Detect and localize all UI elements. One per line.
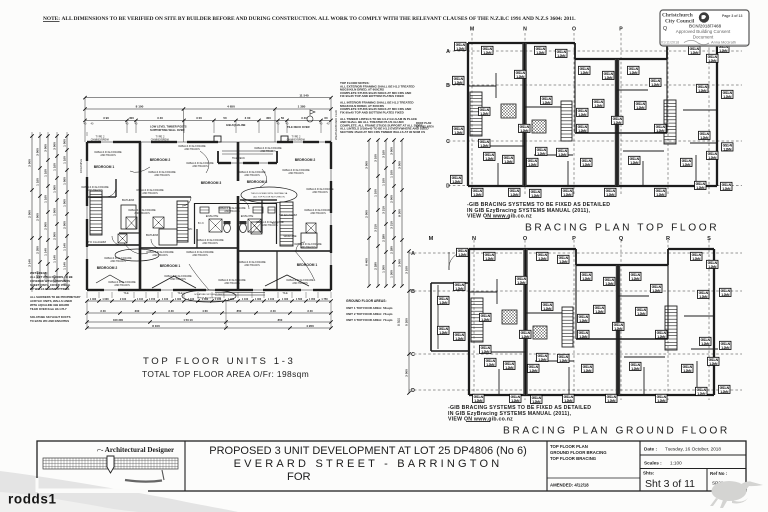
svg-text:Ref No :: Ref No : xyxy=(710,471,728,476)
svg-text:BEDROOM 3: BEDROOM 3 xyxy=(247,180,268,184)
svg-text:AND TRACKS: AND TRACKS xyxy=(224,282,240,285)
svg-text:A: A xyxy=(411,251,415,257)
svg-text:3 40: 3 40 xyxy=(168,309,174,313)
svg-text:850: 850 xyxy=(278,318,283,322)
svg-text:WEATHERBOARD CLAD: WEATHERBOARD CLAD xyxy=(334,110,338,140)
svg-text:1 100: 1 100 xyxy=(162,298,169,301)
svg-text:O: O xyxy=(523,236,528,242)
svg-text:4 260: 4 260 xyxy=(306,324,314,328)
svg-text:BEDROOM 1: BEDROOM 1 xyxy=(160,264,181,268)
svg-text:TO CA AGRM: TO CA AGRM xyxy=(88,240,107,244)
svg-text:TYPE 2: TYPE 2 xyxy=(96,135,105,139)
svg-text:3 000: 3 000 xyxy=(44,144,48,152)
svg-text:EVERARD STREET - BARRINGTON: EVERARD STREET - BARRINGTON xyxy=(234,458,503,470)
svg-text:3 160: 3 160 xyxy=(382,150,386,158)
svg-text:N: N xyxy=(523,27,527,33)
svg-text:GROUND FLOOR AREAS:: GROUND FLOOR AREAS: xyxy=(346,299,387,303)
svg-text:GROUND FLOOR BRACING: GROUND FLOOR BRACING xyxy=(550,450,607,455)
svg-text:BEDROOM 2: BEDROOM 2 xyxy=(97,266,118,270)
svg-text:SUPPORTING WALL OVER: SUPPORTING WALL OVER xyxy=(150,128,185,132)
svg-text:2 000: 2 000 xyxy=(390,195,394,203)
svg-text:ALL DIMENSIONS TO BE VERIFIED: ALL DIMENSIONS TO BE VERIFIED ON SITE BY… xyxy=(62,16,577,22)
svg-text:B: B xyxy=(446,83,450,89)
svg-text:1 060: 1 060 xyxy=(53,185,57,193)
svg-text:1 140: 1 140 xyxy=(63,243,67,251)
svg-text:O: O xyxy=(572,27,576,33)
svg-text:1 140: 1 140 xyxy=(44,248,48,256)
svg-text:AND TRACKS: AND TRACKS xyxy=(312,191,328,194)
svg-text:8 300: 8 300 xyxy=(397,318,401,326)
svg-text:BEDROOM 2: BEDROOM 2 xyxy=(150,158,171,162)
svg-text:5 200: 5 200 xyxy=(405,318,409,326)
svg-text:AND TRACKS: AND TRACKS xyxy=(292,282,308,285)
svg-text:1 000: 1 000 xyxy=(102,298,109,301)
svg-text:3 310: 3 310 xyxy=(390,221,394,229)
svg-text:2 280: 2 280 xyxy=(374,262,378,270)
svg-text:3 00: 3 00 xyxy=(245,116,251,120)
svg-text:3 000: 3 000 xyxy=(36,148,40,156)
svg-text:AND TRACKS: AND TRACKS xyxy=(170,278,186,281)
svg-text:1 400: 1 400 xyxy=(255,298,262,301)
svg-text:2 000: 2 000 xyxy=(53,232,57,240)
svg-text:AND TRACKS: AND TRACKS xyxy=(202,242,218,245)
svg-text:N: N xyxy=(472,236,476,242)
svg-text:AND TRACKS: AND TRACKS xyxy=(262,224,278,227)
svg-text:Shts:: Shts: xyxy=(643,471,655,476)
svg-text:CHIMNEYBREAK: CHIMNEYBREAK xyxy=(287,139,306,142)
svg-text:UNIT 2 TOP FOOR AREA: 74sqm: UNIT 2 TOP FOOR AREA: 74sqm xyxy=(346,312,393,316)
svg-text:ALL TOP FLOOR NOTCHED IN: ALL TOP FLOOR NOTCHED IN xyxy=(253,195,285,198)
svg-text:AND TRACKS: AND TRACKS xyxy=(288,172,304,175)
svg-text:A: A xyxy=(446,49,450,55)
svg-text:AND TRACKS: AND TRACKS xyxy=(244,264,260,267)
svg-text:1 300: 1 300 xyxy=(382,265,386,273)
svg-text:60: 60 xyxy=(324,116,328,120)
svg-text:2 280: 2 280 xyxy=(390,246,394,254)
svg-text:1 140: 1 140 xyxy=(63,262,67,270)
svg-text:AND TRACKS: AND TRACKS xyxy=(192,165,208,168)
svg-text:4 60: 4 60 xyxy=(202,309,208,313)
svg-text:D: D xyxy=(411,388,415,394)
svg-text:1 750: 1 750 xyxy=(321,298,328,301)
svg-text:3 000: 3 000 xyxy=(398,259,402,267)
svg-text:TILE: TILE xyxy=(282,292,288,295)
svg-text:Q: Q xyxy=(619,236,624,242)
svg-text:⌐- Architectural Designer: ⌐- Architectural Designer xyxy=(97,446,174,454)
svg-text:AMENDED: 4/12/18: AMENDED: 4/12/18 xyxy=(550,483,589,488)
svg-text:2 000: 2 000 xyxy=(44,222,48,230)
svg-text:1 060: 1 060 xyxy=(63,177,67,185)
svg-text:1 110: 1 110 xyxy=(137,298,144,301)
svg-text:1 100: 1 100 xyxy=(382,178,386,186)
svg-text:AND TRACKS: AND TRACKS xyxy=(154,174,170,177)
svg-text:1 140: 1 140 xyxy=(53,255,57,263)
svg-text:3 40: 3 40 xyxy=(270,309,276,313)
svg-text:3 90: 3 90 xyxy=(103,116,109,120)
svg-text:SOLATUBE SKYLIGHT DUCT: SOLATUBE SKYLIGHT DUCT xyxy=(194,293,224,296)
svg-text:Date :: Date : xyxy=(644,447,657,452)
svg-text:AND TRACKS: AND TRACKS xyxy=(87,189,103,192)
svg-text:300: 300 xyxy=(135,309,140,313)
svg-text:6 400: 6 400 xyxy=(365,258,369,266)
svg-text:3 40: 3 40 xyxy=(100,309,106,313)
svg-text:SECTION 45x90 AT 600 CRS TIMBE: SECTION 45x90 AT 600 CRS TIMBER WALLS AT… xyxy=(340,130,425,134)
svg-text:M: M xyxy=(429,236,434,242)
svg-text:WDROBE: WDROBE xyxy=(283,234,296,238)
svg-text:B: B xyxy=(411,289,415,295)
svg-text:LOW LEVEL TIMBER POSTS: LOW LEVEL TIMBER POSTS xyxy=(150,125,187,129)
svg-text:UNIT 1 TOP FOOR AREA: 53sqm: UNIT 1 TOP FOOR AREA: 53sqm xyxy=(346,306,393,310)
svg-text:CHIMNEYBREAK: CHIMNEYBREAK xyxy=(91,139,110,142)
svg-text:3 000: 3 000 xyxy=(53,142,57,150)
svg-text:1 000: 1 000 xyxy=(53,208,57,216)
svg-text:1/FRAMING: 1/FRAMING xyxy=(79,159,83,173)
svg-text:AND TRACKS: AND TRACKS xyxy=(300,246,316,249)
svg-text:1 100: 1 100 xyxy=(215,298,222,301)
svg-text:BEDROOM 2: BEDROOM 2 xyxy=(295,158,316,162)
svg-text:3 00: 3 00 xyxy=(196,116,202,120)
svg-text:THIS FLOORED WITH CENTRAL VA: THIS FLOORED WITH CENTRAL VA xyxy=(251,192,288,195)
svg-text:3 310: 3 310 xyxy=(382,206,386,214)
svg-text:TILE: TILE xyxy=(123,292,129,295)
svg-text:1 100: 1 100 xyxy=(188,298,195,301)
svg-text:8 300: 8 300 xyxy=(398,209,402,217)
svg-text:300: 300 xyxy=(266,116,271,120)
svg-text:BATHRM: BATHRM xyxy=(122,198,135,202)
svg-text:1 500: 1 500 xyxy=(296,298,303,301)
svg-text:AT THIS AREA: AT THIS AREA xyxy=(416,124,434,128)
svg-text:FIX 90x45 TOP AND BOTTOM PLATE: FIX 90x45 TOP AND BOTTOM PLATES FIXED xyxy=(340,94,405,98)
svg-text:1 400: 1 400 xyxy=(90,298,97,301)
svg-text:AND TRACKS: AND TRACKS xyxy=(192,254,208,257)
svg-text:AND TRACKS: AND TRACKS xyxy=(134,212,150,215)
svg-text:50: 50 xyxy=(281,116,285,120)
svg-text:PROPOSED 3 UNIT DEVELOPMENT AT: PROPOSED 3 UNIT DEVELOPMENT AT LOT 25 DP… xyxy=(209,445,527,457)
svg-text:BRACING PLAN TOP FLOOR: BRACING PLAN TOP FLOOR xyxy=(525,223,719,234)
svg-text:1 400: 1 400 xyxy=(282,298,289,301)
svg-text:B 1 K: B 1 K xyxy=(198,222,204,225)
svg-text:TILE: TILE xyxy=(177,292,183,295)
svg-text:TILED OVER 6mm H3.1 PLY: TILED OVER 6mm H3.1 PLY xyxy=(30,307,67,311)
svg-text:1:100: 1:100 xyxy=(670,461,682,466)
svg-text:3 100: 3 100 xyxy=(374,154,378,162)
svg-text:3 000: 3 000 xyxy=(398,161,402,169)
svg-text:rodds1: rodds1 xyxy=(8,492,57,507)
svg-text:AND TRACKS: AND TRACKS xyxy=(310,212,326,215)
svg-text:AND TRACKS: AND TRACKS xyxy=(184,148,200,151)
svg-text:AND TRACKS: AND TRACKS xyxy=(224,210,240,213)
svg-text:TOP FLOOR BRACING: TOP FLOOR BRACING xyxy=(550,456,597,461)
svg-text:Anna McGrath: Anna McGrath xyxy=(711,40,736,45)
svg-text:M: M xyxy=(470,27,474,33)
svg-text:3 000: 3 000 xyxy=(28,159,32,167)
svg-text:Scales :: Scales : xyxy=(644,461,662,466)
svg-text:2 000: 2 000 xyxy=(63,221,67,229)
svg-text:UP WALLS BEHIND FITTINGS: UP WALLS BEHIND FITTINGS xyxy=(30,287,70,291)
svg-text:1 100: 1 100 xyxy=(390,170,394,178)
svg-text:C: C xyxy=(446,139,450,145)
svg-text:50: 50 xyxy=(223,116,227,120)
svg-text:850: 850 xyxy=(237,309,242,313)
svg-text:3 140: 3 140 xyxy=(28,259,32,267)
svg-text:Q: Q xyxy=(663,26,667,32)
svg-text:TILE DECK: TILE DECK xyxy=(232,157,245,160)
svg-text:P: P xyxy=(572,236,576,242)
svg-text:TILE DECK OVER: TILE DECK OVER xyxy=(287,125,310,129)
svg-text:ENSUITE: ENSUITE xyxy=(241,214,254,218)
svg-text:3 000: 3 000 xyxy=(390,147,394,155)
svg-text:Tuesday, 16 October, 2018: Tuesday, 16 October, 2018 xyxy=(665,447,721,452)
svg-text:3 310: 3 310 xyxy=(374,224,378,232)
svg-text:1 160: 1 160 xyxy=(44,169,48,177)
svg-text:TOP FLOOR UNITS 1-3: TOP FLOOR UNITS 1-3 xyxy=(143,356,295,367)
svg-text:1 100: 1 100 xyxy=(374,189,378,197)
svg-text:BCN/2018/7468: BCN/2018/7468 xyxy=(689,24,722,29)
svg-text:300: 300 xyxy=(129,116,134,120)
svg-text:AND TRACKS: AND TRACKS xyxy=(100,154,116,157)
svg-text:BATHRM: BATHRM xyxy=(146,233,159,237)
svg-text:1 160: 1 160 xyxy=(36,178,40,186)
svg-text:ROOF PLAN: ROOF PLAN xyxy=(416,121,431,125)
svg-text:1 380: 1 380 xyxy=(298,105,306,109)
svg-text:3 000: 3 000 xyxy=(365,161,369,169)
svg-text:1 400: 1 400 xyxy=(175,298,182,301)
svg-text:WC: WC xyxy=(188,227,193,231)
svg-text:1 300: 1 300 xyxy=(390,270,394,278)
svg-text:3 000: 3 000 xyxy=(405,369,409,377)
svg-text:1 000: 1 000 xyxy=(63,139,67,147)
svg-text:TO BATH WC AND ENSUITES: TO BATH WC AND ENSUITES xyxy=(30,319,69,323)
svg-text:3 40: 3 40 xyxy=(157,116,163,120)
svg-text:FOR: FOR xyxy=(287,471,311,483)
svg-text:CHIMNEYBREAK: CHIMNEYBREAK xyxy=(151,139,170,142)
svg-text:2 000: 2 000 xyxy=(28,210,32,218)
svg-text:2 000: 2 000 xyxy=(36,213,40,221)
svg-text:2 100: 2 100 xyxy=(120,298,127,301)
svg-text:1 100: 1 100 xyxy=(268,298,275,301)
svg-text:TYPE 2: TYPE 2 xyxy=(292,135,301,139)
svg-text:C: C xyxy=(411,352,415,358)
svg-text:AND TRACKS: AND TRACKS xyxy=(114,284,130,287)
svg-text:1 160: 1 160 xyxy=(53,163,57,171)
svg-text:P: P xyxy=(619,27,623,33)
svg-text:01/11/2018: 01/11/2018 xyxy=(661,41,679,45)
svg-text:100 300: 100 300 xyxy=(113,318,124,322)
svg-text:1 000: 1 000 xyxy=(63,199,67,207)
svg-text:1 100: 1 100 xyxy=(242,298,249,301)
svg-text:S: S xyxy=(707,236,711,242)
svg-text:D: D xyxy=(446,184,450,190)
svg-text:BRACING PLAN GROUND FLOOR: BRACING PLAN GROUND FLOOR xyxy=(503,426,730,437)
svg-text:2 280: 2 280 xyxy=(382,234,386,242)
svg-text:2 000: 2 000 xyxy=(365,210,369,218)
svg-text:UNIT 3 TOP FOOR AREA: 71sqm: UNIT 3 TOP FOOR AREA: 71sqm xyxy=(346,318,393,322)
svg-text:1 50 10: 1 50 10 xyxy=(183,318,193,322)
svg-text:Approved Building Consent: Approved Building Consent xyxy=(676,29,731,34)
svg-text:BEDROOM 1: BEDROOM 1 xyxy=(94,165,115,169)
svg-text:1 450: 1 450 xyxy=(309,298,316,301)
svg-text:TO CA AGRM: TO CA AGRM xyxy=(279,213,298,217)
svg-text:TOP FLOOR PLAN: TOP FLOOR PLAN xyxy=(550,444,588,449)
svg-text:AND TRACKS: AND TRACKS xyxy=(152,254,168,257)
svg-text:8 100: 8 100 xyxy=(136,105,144,109)
svg-text:1 400: 1 400 xyxy=(202,298,209,301)
svg-text:AND TRACKS: AND TRACKS xyxy=(260,150,276,153)
svg-text:ENSUITE: ENSUITE xyxy=(206,214,219,218)
svg-text:GIB AQUALINE: GIB AQUALINE xyxy=(226,123,246,127)
svg-text:1 150: 1 150 xyxy=(149,298,156,301)
svg-text:R: R xyxy=(666,236,670,242)
svg-text:3 40: 3 40 xyxy=(301,116,307,120)
svg-text:AND TRACKS: AND TRACKS xyxy=(110,260,126,263)
svg-text:8 100: 8 100 xyxy=(152,324,160,328)
svg-text:11 540: 11 540 xyxy=(299,93,309,97)
svg-text:TOTAL TOP FLOOR AREA O/Fr: 198: TOTAL TOP FLOOR AREA O/Fr: 198sqm xyxy=(142,369,309,379)
svg-text:1 400: 1 400 xyxy=(228,298,235,301)
svg-text:4 650: 4 650 xyxy=(227,105,235,109)
svg-text:1 160: 1 160 xyxy=(44,195,48,203)
svg-text:FIX 90x45 TOP AND BOTTOM PLATE: FIX 90x45 TOP AND BOTTOM PLATES FIXED xyxy=(340,110,405,114)
svg-text:3 100: 3 100 xyxy=(405,266,409,274)
svg-text:2 350: 2 350 xyxy=(36,246,40,254)
svg-text:BEDROOM 3: BEDROOM 3 xyxy=(201,181,222,185)
svg-text:AND TRACKS: AND TRACKS xyxy=(142,192,158,195)
svg-text:Page 3 of 13: Page 3 of 13 xyxy=(722,14,742,18)
svg-text:Sht 3 of 11: Sht 3 of 11 xyxy=(645,478,695,490)
svg-text:AND TRACKS: AND TRACKS xyxy=(244,174,260,177)
svg-text:3 40: 3 40 xyxy=(307,309,313,313)
svg-text:TYPE 2: TYPE 2 xyxy=(156,135,165,139)
svg-text:1 160: 1 160 xyxy=(63,156,67,164)
